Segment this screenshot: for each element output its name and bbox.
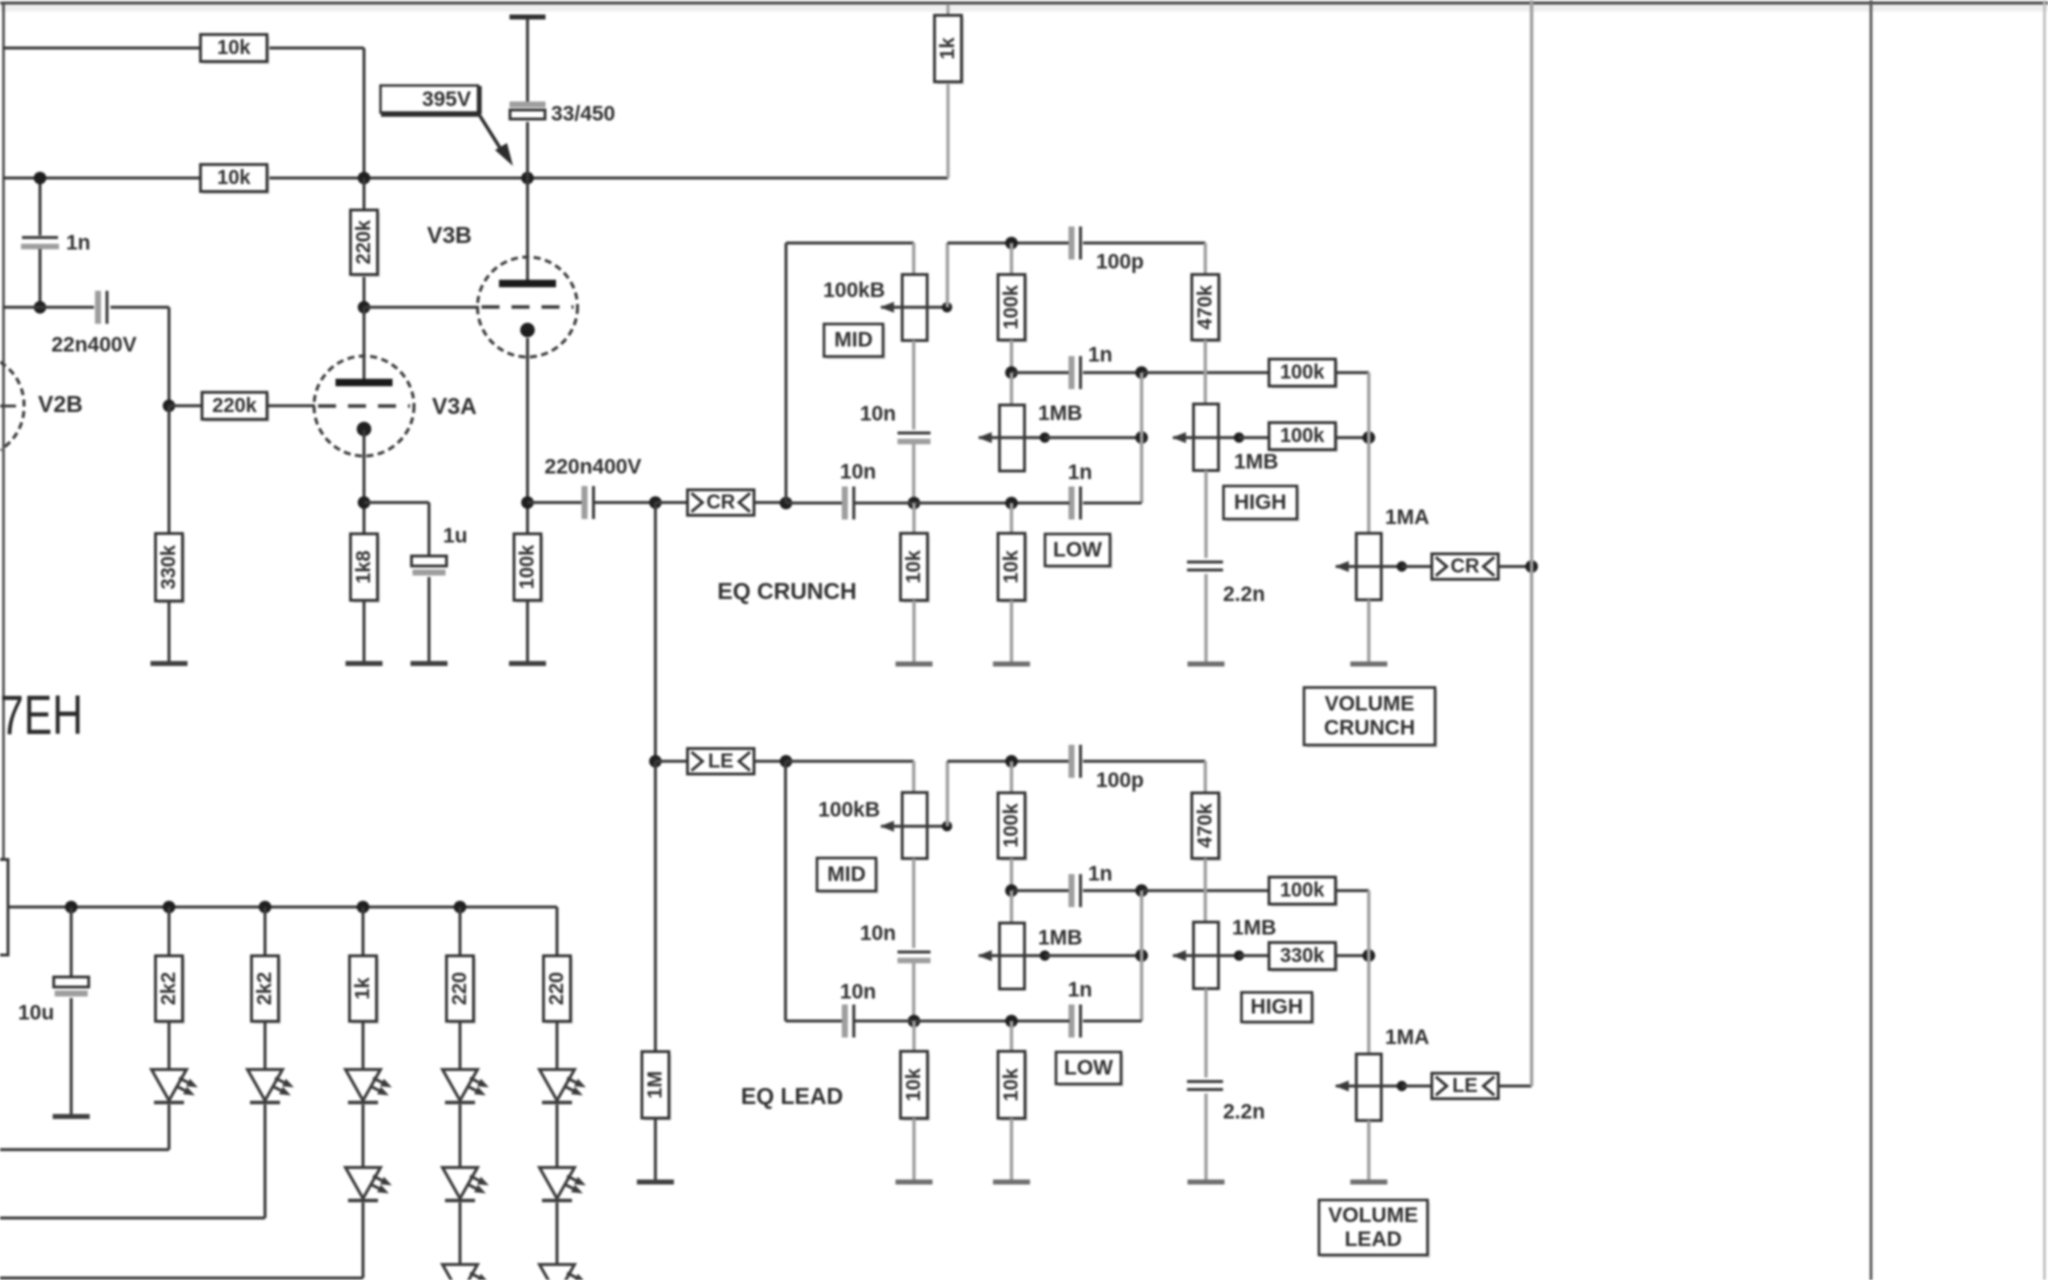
wire V3B anode [526, 178, 529, 281]
ground 2.2n (EQ CRUNCH) [1188, 662, 1225, 667]
svg-text:V2B: V2B [38, 391, 83, 417]
tag return (EQ LEAD) [1402, 1085, 1433, 1088]
wire to 1u bypass cap [364, 501, 429, 504]
wire mid row to 100k (EQ CRUNCH) [1142, 371, 1269, 374]
tag return (EQ CRUNCH) [1402, 565, 1433, 568]
wire split node down to LE tag [654, 503, 657, 762]
page left border [2, 2, 5, 859]
svg-text:1MA: 1MA [1385, 506, 1429, 529]
wire volume column (EQ CRUNCH) [1367, 373, 1370, 534]
page top border [0, 2, 2048, 5]
svg-text:1u: 1u [443, 525, 468, 548]
node 10u [65, 901, 78, 914]
node volume column wiper row (EQ LEAD) [1363, 949, 1376, 962]
wire MID pot to 10n (EQ CRUNCH) [912, 341, 915, 430]
wire LED column 2 [264, 907, 267, 956]
connector stub at left edge [0, 860, 8, 956]
svg-text:1n: 1n [1088, 344, 1113, 367]
svg-text:100k: 100k [1280, 880, 1325, 902]
capacitor 10n shunt (EQ LEAD) [898, 951, 931, 954]
svg-text:EQ LEAD: EQ LEAD [741, 1083, 843, 1109]
capacitor 10n shunt (EQ CRUNCH) [898, 432, 931, 435]
ground 10k left (EQ LEAD) [896, 1180, 933, 1185]
wire LOW wiper to right column (EQ CRUNCH) [1045, 436, 1142, 439]
node 2k2 second [259, 901, 272, 914]
wire EQ LEAD left loop vertical [784, 761, 787, 1021]
node V3A cathode junction [358, 496, 371, 509]
wire LED column 3 return [362, 1203, 365, 1279]
capacitor 10n series (EQ LEAD) [842, 1005, 848, 1038]
wire LED column 2 return [264, 1105, 267, 1219]
potentiometer 1MA VOLUME (EQ LEAD) [1356, 1054, 1381, 1121]
capacitor 100p (EQ CRUNCH) [1069, 227, 1075, 260]
svg-text:330k: 330k [1280, 945, 1325, 967]
wire EQ CRUNCH left loop vertical [785, 243, 788, 503]
resistor 220 (LED column 4) [449, 958, 476, 1024]
svg-text:10k: 10k [217, 37, 251, 59]
LED 1a [152, 1070, 187, 1101]
wire V3A cathode [363, 430, 366, 534]
capacitor 33/450 (electrolytic) [510, 102, 546, 108]
wire 10n to bottom row (EQ LEAD) [912, 961, 915, 1021]
node 1k LED [357, 901, 370, 914]
LED 2a [248, 1070, 283, 1101]
ground for 1k8 [346, 661, 383, 666]
wire 220k to V3A grid [267, 404, 315, 407]
wire 1n column (EQ LEAD) [1140, 891, 1143, 1021]
svg-text:470k: 470k [1194, 284, 1216, 329]
ground 2.2n (EQ LEAD) [1188, 1180, 1225, 1185]
svg-text:CR: CR [1451, 556, 1480, 578]
label box VOLUME (EQ LEAD) [1322, 1203, 1431, 1258]
node V3B cathode junction [521, 496, 534, 509]
label box LOW (EQ CRUNCH) [1048, 537, 1113, 569]
capacitor 1n bottom (EQ CRUNCH) [1083, 502, 1142, 505]
wire V2B anode row [3, 306, 94, 309]
node B+ junction at V3B column [521, 172, 534, 185]
wire MID wiper up to bus (EQ LEAD) [946, 761, 949, 826]
wire 220n to node CR/LE split [594, 501, 655, 504]
svg-text:LEAD: LEAD [1345, 1228, 1402, 1251]
svg-text:1k8: 1k8 [353, 550, 375, 583]
svg-text:100kB: 100kB [818, 799, 880, 822]
node 1n junction [34, 172, 47, 185]
svg-text:10k: 10k [217, 167, 251, 189]
svg-text:2k2: 2k2 [254, 972, 276, 1005]
svg-text:22n400V: 22n400V [51, 334, 136, 357]
resistor on wiper row (EQ CRUNCH) [1272, 425, 1339, 452]
LED 5a [540, 1070, 575, 1101]
LED 4c (clipped at page edge) [443, 1265, 478, 1280]
LED 4b [443, 1168, 478, 1199]
svg-text:10n: 10n [860, 403, 896, 426]
LED 5b [540, 1168, 575, 1199]
node bus CR [1525, 560, 1538, 573]
ground 10k left (EQ CRUNCH) [896, 662, 933, 667]
node mid row right (EQ CRUNCH) [1135, 366, 1148, 379]
triode V3A [314, 356, 414, 456]
node 10n/10k junction (EQ LEAD) [908, 1015, 921, 1028]
resistor 2k2 (LED column 1) [158, 958, 185, 1024]
tag LE (lead send) [655, 760, 689, 763]
resistor 1k8 (cathode bias) [353, 536, 380, 603]
page divider line [1870, 0, 1873, 1280]
capacitor 1u (cathode bypass) [412, 556, 447, 566]
wire 10n to bottom row (EQ CRUNCH) [912, 442, 915, 503]
svg-text:EQ CRUNCH: EQ CRUNCH [717, 578, 856, 604]
wire right bus [1530, 0, 1533, 1086]
wire to 220k grid stopper [169, 404, 202, 407]
node 100k top (EQ LEAD) [1005, 755, 1018, 768]
capacitor 1n (input filter) [39, 178, 42, 236]
node 2k2 first [163, 901, 176, 914]
ground volume pot (EQ LEAD) [1350, 1180, 1387, 1185]
resistor 100k column (EQ LEAD) [1010, 761, 1013, 793]
node B+ junction at 220k [358, 172, 371, 185]
svg-text:100k: 100k [1280, 362, 1325, 384]
svg-text:CRUNCH: CRUNCH [1324, 717, 1415, 740]
resistor 100k mid (EQ CRUNCH) [1272, 362, 1339, 389]
capacitor 1n mid (EQ LEAD) [1012, 889, 1070, 892]
wire top supply row [3, 47, 201, 50]
wiper MID (EQ CRUNCH) [881, 306, 947, 309]
arrow from 395V label to node [480, 116, 502, 151]
label box LOW (EQ LEAD) [1059, 1055, 1124, 1087]
svg-text:CR: CR [706, 492, 735, 514]
svg-text:VOLUME: VOLUME [1328, 1204, 1418, 1227]
node LE junction [649, 755, 662, 768]
resistor on wiper row (EQ LEAD) [1272, 945, 1339, 972]
svg-text:MID: MID [827, 863, 866, 886]
svg-text:VOLUME: VOLUME [1325, 693, 1415, 716]
capacitor 100p (EQ LEAD) [1069, 745, 1075, 778]
wire EQ CRUNCH wiper bus row [947, 242, 1069, 245]
resistor 1k (LED column 3) [352, 958, 379, 1024]
wire 1n column (EQ CRUNCH) [1140, 373, 1143, 503]
wiper VOLUME (EQ LEAD) [1336, 1085, 1402, 1088]
wire LOW wiper to right column (EQ LEAD) [1045, 954, 1142, 957]
potentiometer 1MB HIGH (EQ LEAD) [1194, 922, 1219, 989]
wire cathode to 220n cap [528, 501, 585, 504]
wire volume pot to ground (EQ LEAD) [1367, 1121, 1370, 1181]
page right border [2043, 0, 2046, 1280]
resistor 10k (B+ row) [203, 167, 270, 194]
ground for 1M [637, 1180, 674, 1185]
node volume column wiper row (EQ CRUNCH) [1363, 431, 1376, 444]
svg-text:7EH: 7EH [0, 683, 83, 746]
capacitor 22n400V (coupling) [95, 291, 101, 324]
supply terminal bar [510, 15, 546, 20]
svg-text:1n: 1n [1068, 461, 1093, 484]
wiper MID (EQ LEAD) [881, 825, 947, 828]
node 220k/330k junction [163, 400, 176, 413]
svg-text:1MB: 1MB [1038, 402, 1082, 425]
wire V3A anode [363, 307, 366, 379]
resistor 1k (supply dropper) [946, 4, 949, 15]
wire HIGH wiper to 100k (EQ LEAD) [1239, 954, 1269, 957]
resistor 220k (V3B grid leak) [363, 178, 366, 210]
wiper HIGH (EQ LEAD) [1173, 954, 1239, 957]
svg-text:LE: LE [1452, 1075, 1478, 1097]
svg-text:220n400V: 220n400V [545, 456, 642, 479]
wire LED supply bus [8, 906, 557, 909]
wire V3B grid [364, 306, 479, 309]
svg-text:HIGH: HIGH [1251, 996, 1304, 1019]
svg-text:100k: 100k [517, 544, 539, 589]
LED 3b [346, 1168, 381, 1199]
svg-text:10k: 10k [1001, 1067, 1023, 1101]
svg-text:2.2n: 2.2n [1223, 1101, 1265, 1124]
svg-text:V3B: V3B [427, 222, 472, 248]
resistor 470k (EQ CRUNCH) [1204, 243, 1207, 275]
node mid row right (EQ LEAD) [1135, 884, 1148, 897]
svg-text:1M: 1M [644, 1071, 666, 1099]
capacitor 10n series (EQ CRUNCH) [842, 487, 848, 520]
voltage label 395V [381, 86, 479, 113]
wiper VOLUME (EQ CRUNCH) [1336, 565, 1402, 568]
svg-text:10n: 10n [860, 922, 896, 945]
ground 10k right (EQ CRUNCH) [993, 662, 1030, 667]
svg-text:100p: 100p [1096, 769, 1144, 792]
wire MID pot to 10n (EQ LEAD) [912, 859, 915, 949]
svg-text:1n: 1n [66, 232, 91, 255]
label box MID (EQ LEAD) [820, 861, 879, 894]
resistor 1M (lead bleed) [654, 761, 657, 1051]
wire LED column 3 [362, 907, 365, 956]
svg-text:10k: 10k [903, 1067, 925, 1101]
wire volume column (EQ LEAD) [1367, 891, 1370, 1054]
node wiper/1n column (EQ LEAD) [1135, 949, 1148, 962]
resistor 100k mid (EQ LEAD) [1272, 880, 1339, 907]
resistor 100k column (EQ CRUNCH) [1010, 243, 1013, 275]
svg-text:1n: 1n [1068, 979, 1093, 1002]
svg-text:100k: 100k [1001, 802, 1023, 847]
node 220 first [454, 901, 467, 914]
svg-text:33/450: 33/450 [551, 103, 615, 126]
label box HIGH (EQ LEAD) [1244, 995, 1315, 1025]
capacitor 1n bottom (EQ LEAD) [1083, 1020, 1142, 1023]
node LOW pot bottom (EQ CRUNCH) [1005, 497, 1018, 510]
svg-text:220: 220 [546, 972, 568, 1005]
svg-text:LOW: LOW [1053, 539, 1102, 562]
node wiper/1n column (EQ CRUNCH) [1135, 431, 1148, 444]
resistor 100k (V3B cathode) [517, 536, 544, 603]
wire LED column 1 return [168, 1105, 171, 1150]
wire LED column 5 [556, 907, 559, 956]
potentiometer 1MB LOW (EQ LEAD) [1010, 891, 1013, 923]
potentiometer 1MA VOLUME (EQ CRUNCH) [1356, 533, 1381, 600]
potentiometer 1MB HIGH (EQ CRUNCH) [1194, 404, 1219, 471]
wire LED column 1 [168, 907, 171, 956]
wiper LOW (EQ LEAD) [979, 954, 1045, 957]
wire V3B cathode [526, 338, 529, 534]
svg-text:330k: 330k [158, 544, 180, 589]
label box MID (EQ CRUNCH) [827, 327, 886, 360]
label box VOLUME (EQ CRUNCH) [1307, 690, 1438, 748]
resistor 470k (EQ LEAD) [1204, 761, 1207, 793]
LED 4a [443, 1070, 478, 1101]
svg-text:2.2n: 2.2n [1223, 583, 1265, 606]
node CR/LE split [649, 496, 662, 509]
node 100k top (EQ CRUNCH) [1005, 237, 1018, 250]
wire volume pot to ground (EQ CRUNCH) [1367, 600, 1370, 662]
node LOW pot bottom (EQ LEAD) [1005, 1015, 1018, 1028]
ground volume pot (EQ CRUNCH) [1350, 662, 1387, 667]
wire MID wiper up to bus (EQ CRUNCH) [946, 243, 949, 307]
triode V3B [478, 257, 578, 357]
wiper LOW (EQ CRUNCH) [979, 436, 1045, 439]
svg-text:1MB: 1MB [1232, 917, 1276, 940]
resistor 330k (grid leak) [168, 406, 171, 534]
capacitor 1n mid (EQ CRUNCH) [1012, 371, 1070, 374]
wire EQ LEAD wiper bus row [947, 760, 1069, 763]
ground for 1u [411, 661, 448, 666]
triode V2B (partially visible) [0, 362, 24, 450]
svg-text:10u: 10u [18, 1002, 54, 1025]
resistor 10k left (EQ LEAD) [912, 1021, 915, 1051]
ground for 100k [509, 661, 546, 666]
svg-text:10n: 10n [840, 461, 876, 484]
wire HIGH wiper to 100k (EQ CRUNCH) [1239, 436, 1269, 439]
tag CR (crunch send) [655, 501, 689, 504]
svg-text:100k: 100k [1001, 284, 1023, 329]
node V3A anode / V3B grid [358, 301, 371, 314]
svg-text:1MA: 1MA [1385, 1026, 1429, 1049]
node mid row left (EQ LEAD) [1005, 884, 1018, 897]
resistor 10k left (EQ CRUNCH) [912, 503, 915, 533]
label box HIGH (EQ CRUNCH) [1226, 489, 1300, 522]
ground for 330k [151, 661, 188, 666]
wire EQ LEAD pot-top row [786, 760, 914, 763]
svg-text:395V: 395V [422, 88, 471, 111]
svg-text:1n: 1n [1088, 863, 1113, 886]
wiper HIGH (EQ CRUNCH) [1173, 436, 1239, 439]
capacitor 2.2n (EQ CRUNCH) [1204, 471, 1207, 559]
svg-text:10k: 10k [1001, 549, 1023, 583]
wire 33/450 to B+ row [526, 122, 529, 178]
resistor 10k (top supply) [203, 37, 270, 64]
node mid row left (EQ CRUNCH) [1005, 366, 1018, 379]
ground for 10u [53, 1114, 90, 1119]
svg-text:1MB: 1MB [1038, 927, 1082, 950]
svg-text:10k: 10k [903, 549, 925, 583]
resistor 2k2 (LED column 2) [254, 958, 281, 1024]
svg-text:1MB: 1MB [1234, 451, 1278, 474]
potentiometer 100kB MID (EQ LEAD) [902, 793, 927, 859]
svg-text:LOW: LOW [1064, 1057, 1113, 1080]
LED 5c (clipped at page edge) [540, 1265, 575, 1280]
svg-text:220: 220 [449, 972, 471, 1005]
resistor 220k (V3A grid) [205, 395, 270, 422]
resistor 10k right (EQ LEAD) [1010, 1021, 1013, 1051]
svg-text:220k: 220k [212, 395, 257, 417]
svg-text:470k: 470k [1194, 802, 1216, 847]
LED 3a [346, 1070, 381, 1101]
capacitor 220n400V (output coupling) [582, 486, 588, 519]
svg-text:V3A: V3A [432, 393, 477, 419]
svg-text:2k2: 2k2 [158, 972, 180, 1005]
wire B+ row [3, 177, 201, 180]
svg-text:10n: 10n [840, 981, 876, 1004]
svg-text:220k: 220k [353, 219, 375, 264]
capacitor 10u (electrolytic) [70, 907, 73, 977]
wire 22n to 220k [111, 306, 170, 309]
wire supply terminal to 33/450 [526, 19, 529, 105]
svg-text:HIGH: HIGH [1234, 491, 1287, 514]
svg-text:100p: 100p [1096, 251, 1144, 274]
node 10n/10k junction (EQ CRUNCH) [908, 497, 921, 510]
svg-text:100kB: 100kB [823, 279, 885, 302]
wire EQ CRUNCH pot-top row [786, 242, 914, 245]
svg-text:LE: LE [708, 750, 734, 772]
node EQ CRUNCH input junction [780, 497, 793, 510]
resistor 10k right (EQ CRUNCH) [1010, 503, 1013, 533]
svg-text:1k: 1k [352, 977, 374, 1000]
node EQ LEAD input junction [780, 755, 793, 768]
capacitor 2.2n (EQ LEAD) [1204, 989, 1207, 1078]
potentiometer 1MB LOW (EQ CRUNCH) [1010, 373, 1013, 405]
node V2B anode junction [34, 301, 47, 314]
svg-text:1k: 1k [937, 37, 959, 60]
resistor 220 (LED column 5) [546, 958, 573, 1024]
wire LED column 4 [459, 907, 462, 956]
wire mid row to 100k (EQ LEAD) [1142, 889, 1269, 892]
svg-text:MID: MID [834, 329, 873, 352]
potentiometer 100kB MID (EQ CRUNCH) [902, 275, 927, 341]
ground 10k right (EQ LEAD) [993, 1180, 1030, 1185]
svg-text:100k: 100k [1280, 425, 1325, 447]
